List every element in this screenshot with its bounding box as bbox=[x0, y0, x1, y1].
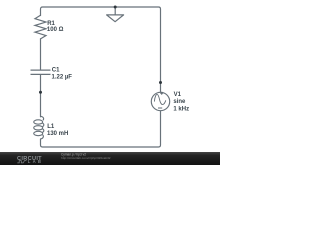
svg-text:V1: V1 bbox=[174, 92, 182, 98]
svg-text:http://circuitlab.com/c/php/32: http://circuitlab.com/c/php/326cab32 bbox=[61, 156, 111, 160]
svg-text:L1: L1 bbox=[47, 124, 55, 130]
svg-text:1.22 µF: 1.22 µF bbox=[52, 74, 73, 80]
svg-text:LAB: LAB bbox=[28, 159, 43, 164]
svg-text:130 mH: 130 mH bbox=[47, 131, 68, 137]
svg-text:sine: sine bbox=[173, 99, 186, 105]
svg-text:C1: C1 bbox=[52, 68, 60, 74]
svg-text:1 kHz: 1 kHz bbox=[173, 106, 189, 112]
svg-text:100 Ω: 100 Ω bbox=[47, 27, 64, 33]
